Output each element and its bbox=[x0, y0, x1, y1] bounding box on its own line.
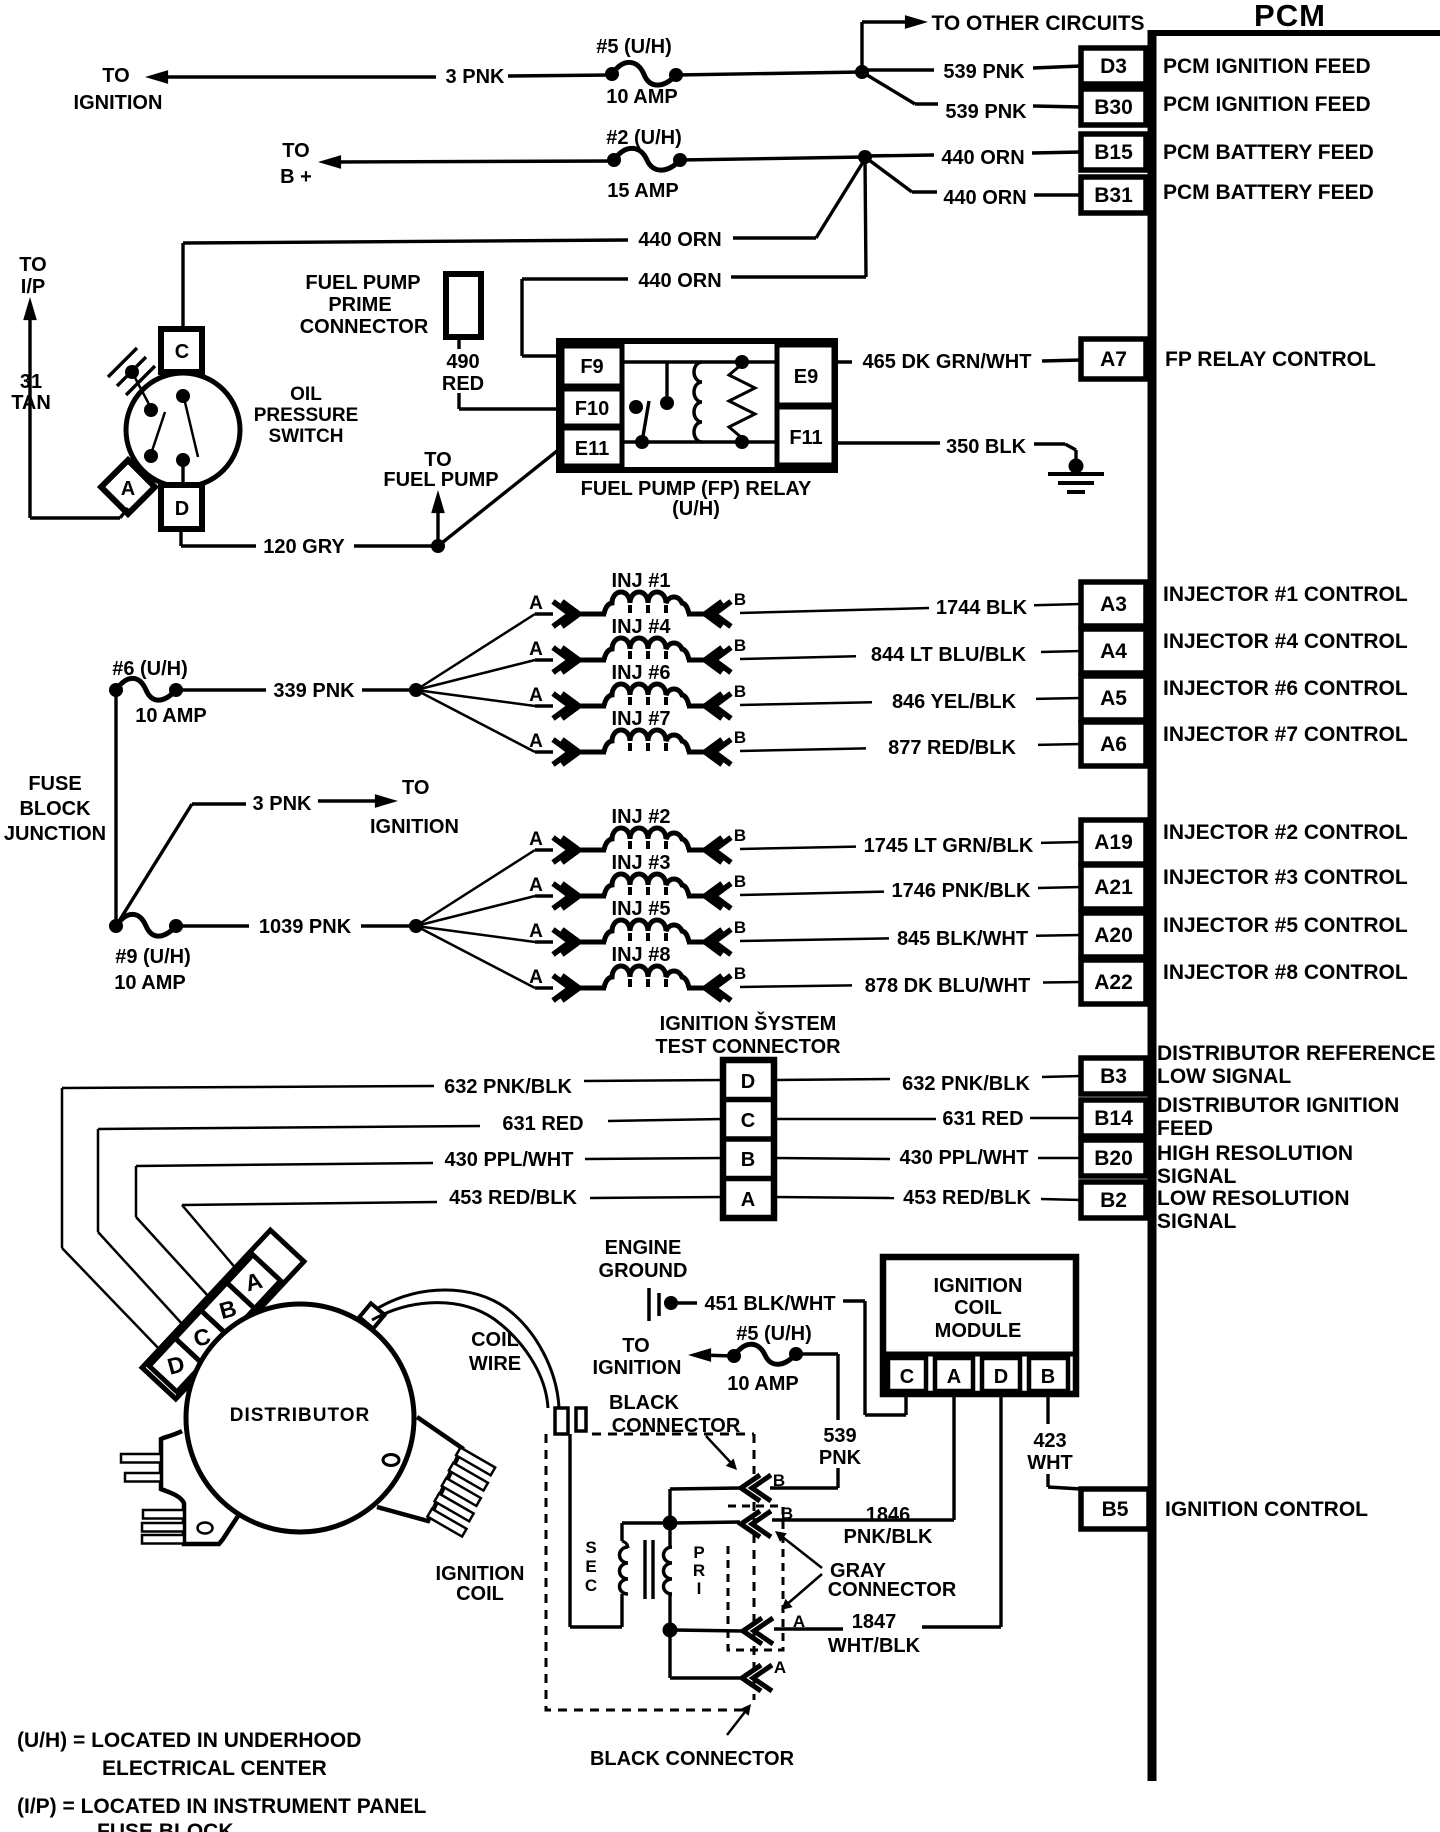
svg-text:B: B bbox=[1041, 1366, 1055, 1388]
svg-text:PRIME: PRIME bbox=[328, 294, 391, 316]
svg-text:#9 (U/H): #9 (U/H) bbox=[115, 946, 191, 968]
relay terminal F10 bbox=[562, 389, 622, 426]
wire feed to INJ #4 bbox=[416, 660, 535, 690]
svg-text:MODULE: MODULE bbox=[935, 1320, 1022, 1342]
svg-text:F9: F9 bbox=[580, 356, 603, 378]
svg-text:878 DK BLU/WHT: 878 DK BLU/WHT bbox=[865, 975, 1031, 997]
svg-text:A19: A19 bbox=[1094, 831, 1133, 854]
svg-text:423: 423 bbox=[1033, 1430, 1066, 1452]
fuse #6 (U/H) 10 AMP bbox=[116, 678, 176, 700]
coil terminal A gray connector bbox=[754, 1618, 773, 1644]
svg-text:B +: B + bbox=[280, 166, 312, 188]
svg-text:INJ #7: INJ #7 bbox=[612, 708, 671, 730]
node 120 GRY junction bbox=[431, 539, 445, 553]
svg-text:465 DK GRN/WHT: 465 DK GRN/WHT bbox=[863, 351, 1032, 373]
svg-text:B: B bbox=[734, 728, 746, 747]
wire 1039 PNK bbox=[176, 924, 249, 927]
svg-text:R: R bbox=[693, 1561, 705, 1580]
svg-text:A20: A20 bbox=[1094, 924, 1133, 947]
wire fuse2 to junction bbox=[680, 157, 865, 160]
svg-text:A: A bbox=[947, 1366, 961, 1388]
svg-text:430 PPL/WHT: 430 PPL/WHT bbox=[445, 1149, 574, 1171]
svg-text:A5: A5 bbox=[1100, 687, 1127, 710]
svg-text:A: A bbox=[529, 829, 543, 850]
wire 120 GRY to relay E11 bbox=[438, 447, 562, 546]
svg-text:GROUND: GROUND bbox=[599, 1260, 688, 1282]
module terminal A bbox=[935, 1358, 973, 1391]
svg-text:1039 PNK: 1039 PNK bbox=[259, 916, 352, 938]
svg-text:INJECTOR #4 CONTROL: INJECTOR #4 CONTROL bbox=[1163, 630, 1408, 653]
svg-text:A: A bbox=[529, 921, 543, 942]
PCM connector A5 bbox=[1081, 676, 1146, 720]
svg-text:B2: B2 bbox=[1100, 1189, 1127, 1212]
svg-text:D: D bbox=[994, 1366, 1008, 1388]
svg-text:B5: B5 bbox=[1102, 1498, 1129, 1521]
module terminal B bbox=[1029, 1358, 1068, 1391]
svg-text:A: A bbox=[741, 1189, 755, 1211]
svg-text:B: B bbox=[734, 964, 746, 983]
fuse #5 (U/H) 10 AMP bbox=[612, 62, 676, 85]
wire 539 PNK to B30 bbox=[862, 72, 915, 104]
svg-text:846 YEL/BLK: 846 YEL/BLK bbox=[892, 691, 1017, 713]
svg-text:A: A bbox=[529, 639, 543, 660]
svg-text:PNK/BLK: PNK/BLK bbox=[844, 1526, 933, 1548]
svg-text:DISTRIBUTOR: DISTRIBUTOR bbox=[230, 1405, 370, 1426]
svg-text:3 PNK: 3 PNK bbox=[253, 793, 312, 815]
wire 453 RED/BLK left bbox=[590, 1197, 723, 1198]
svg-text:A: A bbox=[793, 1612, 805, 1631]
PCM connector B5 bbox=[1081, 1489, 1149, 1529]
relay terminal E11 bbox=[562, 428, 622, 466]
svg-text:E9: E9 bbox=[794, 366, 818, 388]
svg-text:PCM IGNITION FEED: PCM IGNITION FEED bbox=[1163, 55, 1371, 78]
svg-text:CONNECTOR: CONNECTOR bbox=[612, 1415, 741, 1437]
svg-text:B: B bbox=[734, 826, 746, 845]
svg-text:539: 539 bbox=[823, 1425, 856, 1447]
wire feed to INJ #7 bbox=[416, 690, 535, 752]
svg-text:B: B bbox=[734, 590, 746, 609]
svg-text:10 AMP: 10 AMP bbox=[727, 1373, 799, 1395]
svg-text:B31: B31 bbox=[1094, 184, 1133, 207]
svg-text:A: A bbox=[529, 731, 543, 752]
svg-text:A4: A4 bbox=[1100, 640, 1127, 663]
svg-text:RED: RED bbox=[442, 373, 484, 395]
fuse #9 (U/H) 10 AMP bbox=[116, 914, 176, 936]
svg-text:ELECTRICAL CENTER: ELECTRICAL CENTER bbox=[102, 1757, 327, 1780]
wire 1846 PNK/BLK bbox=[952, 1394, 955, 1520]
wire 339 PNK bbox=[176, 688, 266, 691]
svg-text:C: C bbox=[585, 1576, 597, 1595]
svg-text:453 RED/BLK: 453 RED/BLK bbox=[449, 1187, 577, 1209]
svg-text:B30: B30 bbox=[1094, 96, 1133, 119]
wire 423 WHT bbox=[1046, 1394, 1049, 1424]
svg-text:FUEL PUMP: FUEL PUMP bbox=[383, 469, 498, 491]
wire 430 PPL/WHT right bbox=[774, 1158, 890, 1159]
svg-text:A7: A7 bbox=[1100, 348, 1127, 371]
ignition coil secondary winding bbox=[620, 1547, 629, 1594]
svg-text:TO: TO bbox=[19, 254, 46, 276]
relay terminal E9 bbox=[777, 345, 834, 405]
fuel pump relay outline bbox=[559, 341, 835, 470]
svg-text:S: S bbox=[585, 1538, 596, 1557]
PCM connector B30 bbox=[1081, 89, 1146, 125]
svg-text:TO: TO bbox=[424, 449, 451, 471]
fuse block junction bus bbox=[114, 691, 117, 926]
svg-text:631 RED: 631 RED bbox=[942, 1108, 1023, 1130]
coil terminal B black connector bbox=[752, 1475, 771, 1501]
svg-text:PCM: PCM bbox=[1254, 0, 1326, 33]
wire 430 to distributor B bbox=[136, 1217, 209, 1297]
ignition coil core bbox=[643, 1540, 646, 1599]
wire 453 RED/BLK right bbox=[774, 1197, 894, 1198]
wire 3 PNK to ignition branch bbox=[116, 804, 192, 926]
svg-text:OIL: OIL bbox=[290, 384, 322, 405]
wire coil A black bbox=[668, 1636, 671, 1678]
PCM connector A22 bbox=[1081, 960, 1146, 1004]
oil pressure switch terminal D bbox=[161, 485, 202, 529]
PCM module boundary bbox=[1148, 30, 1157, 1781]
wire 440 ORN to B15 bbox=[865, 155, 934, 156]
svg-text:INJECTOR #8 CONTROL: INJECTOR #8 CONTROL bbox=[1163, 961, 1408, 984]
svg-text:PCM BATTERY FEED: PCM BATTERY FEED bbox=[1163, 141, 1374, 164]
svg-text:BLOCK: BLOCK bbox=[19, 798, 91, 820]
ignition coil module bbox=[883, 1257, 1076, 1394]
node 1039 PNK junction bbox=[409, 919, 423, 933]
svg-text:F10: F10 bbox=[575, 398, 609, 420]
wire 430 PPL/WHT left bbox=[585, 1158, 723, 1159]
svg-text:P: P bbox=[693, 1543, 704, 1562]
svg-text:INJ #1: INJ #1 bbox=[612, 570, 671, 592]
svg-text:INJECTOR #1 CONTROL: INJECTOR #1 CONTROL bbox=[1163, 583, 1408, 606]
svg-text:31: 31 bbox=[20, 371, 42, 393]
svg-text:B: B bbox=[773, 1471, 785, 1490]
fuel pump prime connector bbox=[446, 274, 481, 337]
relay coil winding bbox=[694, 362, 702, 442]
oil pressure switch terminal A bbox=[101, 460, 155, 514]
svg-text:10 AMP: 10 AMP bbox=[606, 86, 678, 108]
PCM connector A6 bbox=[1081, 722, 1146, 766]
svg-text:440 ORN: 440 ORN bbox=[638, 270, 721, 292]
svg-text:A: A bbox=[529, 593, 543, 614]
svg-text:LOW RESOLUTION: LOW RESOLUTION bbox=[1157, 1187, 1350, 1210]
svg-text:D: D bbox=[175, 498, 189, 520]
wire coil B black bbox=[668, 1489, 671, 1523]
svg-text:120 GRY: 120 GRY bbox=[263, 536, 345, 558]
wire 878 DK BLU/WHT bbox=[740, 985, 852, 987]
svg-text:B: B bbox=[781, 1504, 793, 1523]
coil tower bbox=[555, 1408, 568, 1434]
svg-text:A6: A6 bbox=[1100, 733, 1127, 756]
node coil primary top bbox=[663, 1516, 678, 1531]
svg-text:#6 (U/H): #6 (U/H) bbox=[112, 658, 188, 680]
svg-text:TAN: TAN bbox=[11, 392, 51, 414]
wire 631 RED right bbox=[774, 1118, 936, 1121]
svg-text:539 PNK: 539 PNK bbox=[943, 61, 1025, 83]
coil wire bbox=[378, 1290, 559, 1408]
svg-text:IGNITION: IGNITION bbox=[934, 1275, 1023, 1297]
svg-text:FEED: FEED bbox=[1157, 1117, 1213, 1140]
svg-text:1744 BLK: 1744 BLK bbox=[936, 597, 1028, 619]
svg-text:10 AMP: 10 AMP bbox=[135, 705, 207, 727]
svg-text:INJECTOR #3 CONTROL: INJECTOR #3 CONTROL bbox=[1163, 866, 1408, 889]
fuse #5 (U/H) 10 AMP lower bbox=[734, 1344, 796, 1364]
distributor connector strip bbox=[142, 1230, 304, 1399]
svg-text:845 BLK/WHT: 845 BLK/WHT bbox=[897, 928, 1028, 950]
wire 845 BLK/WHT bbox=[740, 938, 889, 941]
wire 120 GRY bbox=[179, 529, 182, 546]
svg-text:CONNECTOR: CONNECTOR bbox=[300, 316, 429, 338]
svg-text:INJECTOR #7 CONTROL: INJECTOR #7 CONTROL bbox=[1163, 723, 1408, 746]
PCM connector A20 bbox=[1081, 913, 1146, 957]
svg-text:INJ #2: INJ #2 bbox=[612, 806, 671, 828]
wire TO OTHER CIRCUITS bbox=[860, 22, 863, 72]
svg-text:440 ORN: 440 ORN bbox=[638, 229, 721, 251]
svg-text:877 RED/BLK: 877 RED/BLK bbox=[888, 737, 1016, 759]
svg-text:B20: B20 bbox=[1094, 1147, 1133, 1170]
svg-text:TO: TO bbox=[102, 65, 129, 87]
svg-text:1746 PNK/BLK: 1746 PNK/BLK bbox=[892, 880, 1031, 902]
svg-text:DISTRIBUTOR REFERENCE: DISTRIBUTOR REFERENCE bbox=[1157, 1042, 1435, 1065]
oil pressure switch body bbox=[126, 373, 240, 487]
svg-text:SIGNAL: SIGNAL bbox=[1157, 1165, 1237, 1188]
svg-text:FUSE: FUSE bbox=[28, 773, 81, 795]
gray connector dashed outline bbox=[728, 1506, 783, 1650]
svg-text:632 PNK/BLK: 632 PNK/BLK bbox=[902, 1073, 1030, 1095]
svg-text:B15: B15 bbox=[1094, 141, 1133, 164]
node 339 PNK junction bbox=[409, 683, 423, 697]
svg-text:E11: E11 bbox=[575, 438, 609, 460]
wire feed to INJ #8 bbox=[416, 926, 535, 988]
svg-text:A21: A21 bbox=[1094, 876, 1133, 899]
svg-text:A: A bbox=[774, 1658, 786, 1677]
distributor left connector bbox=[161, 1431, 238, 1544]
svg-text:B: B bbox=[734, 872, 746, 891]
svg-text:B: B bbox=[734, 918, 746, 937]
svg-text:A: A bbox=[529, 875, 543, 896]
svg-text:CONNECTOR: CONNECTOR bbox=[828, 1579, 957, 1601]
relay terminal F9 bbox=[562, 346, 622, 386]
svg-text:A: A bbox=[529, 685, 543, 706]
svg-text:3 PNK: 3 PNK bbox=[446, 66, 505, 88]
svg-text:440 ORN: 440 ORN bbox=[941, 147, 1024, 169]
wire feed to INJ #6 bbox=[416, 690, 535, 706]
svg-text:A: A bbox=[529, 967, 543, 988]
svg-text:PNK: PNK bbox=[819, 1447, 862, 1469]
svg-text:453 RED/BLK: 453 RED/BLK bbox=[903, 1187, 1031, 1209]
svg-text:B14: B14 bbox=[1094, 1107, 1133, 1130]
svg-text:INJ #4: INJ #4 bbox=[612, 616, 672, 638]
svg-text:TO OTHER CIRCUITS: TO OTHER CIRCUITS bbox=[931, 12, 1144, 35]
module terminal C bbox=[888, 1358, 926, 1391]
wire coil A gray bbox=[674, 1630, 742, 1631]
svg-text:C: C bbox=[741, 1110, 755, 1132]
svg-text:B: B bbox=[734, 636, 746, 655]
wire to fuel pump bbox=[431, 490, 445, 513]
wire 440 ORN to oil pressure switch C bbox=[183, 240, 628, 243]
svg-text:PCM IGNITION FEED: PCM IGNITION FEED bbox=[1163, 93, 1371, 116]
svg-text:844 LT BLU/BLK: 844 LT BLU/BLK bbox=[871, 644, 1027, 666]
svg-text:LOW SIGNAL: LOW SIGNAL bbox=[1157, 1065, 1291, 1088]
svg-text:COIL: COIL bbox=[456, 1583, 504, 1605]
coil terminal B gray connector bbox=[752, 1511, 771, 1537]
svg-text:WHT: WHT bbox=[1027, 1452, 1073, 1474]
svg-text:(I/P) = LOCATED IN INSTRUMEN: (I/P) = LOCATED IN INSTRUMENT PANEL bbox=[17, 1795, 426, 1818]
svg-text:INJ #8: INJ #8 bbox=[612, 944, 671, 966]
relay resistor bbox=[729, 364, 755, 438]
PCM connector D3 bbox=[1081, 48, 1146, 84]
svg-text:WIRE: WIRE bbox=[469, 1353, 521, 1375]
wire 846 YEL/BLK bbox=[740, 702, 872, 705]
svg-text:IGNITION: IGNITION bbox=[436, 1563, 525, 1585]
svg-text:451 BLK/WHT: 451 BLK/WHT bbox=[704, 1293, 835, 1315]
PCM connector A7 bbox=[1081, 339, 1146, 379]
PCM connector B14 bbox=[1081, 1100, 1146, 1136]
svg-text:631 RED: 631 RED bbox=[502, 1113, 583, 1135]
svg-text:E: E bbox=[585, 1557, 596, 1576]
wire 1745 LT GRN/BLK bbox=[740, 847, 856, 849]
PCM connector A21 bbox=[1081, 865, 1146, 909]
svg-text:INJ #3: INJ #3 bbox=[612, 852, 671, 874]
distributor right connector bbox=[377, 1417, 462, 1521]
wire 632 PNK/BLK left bbox=[584, 1080, 723, 1081]
svg-text:COIL: COIL bbox=[954, 1297, 1002, 1319]
oil pressure switch terminal C bbox=[161, 329, 202, 372]
ignition coil primary winding bbox=[664, 1547, 673, 1594]
svg-text:I: I bbox=[697, 1579, 702, 1598]
svg-text:FUEL PUMP: FUEL PUMP bbox=[305, 272, 420, 294]
svg-text:FUEL PUMP (FP) RELAY: FUEL PUMP (FP) RELAY bbox=[581, 478, 812, 500]
svg-text:COIL: COIL bbox=[471, 1329, 519, 1351]
svg-text:D3: D3 bbox=[1100, 55, 1127, 78]
wire 490 RED to F10 bbox=[457, 337, 460, 349]
svg-text:#5 (U/H): #5 (U/H) bbox=[596, 36, 672, 58]
svg-text:B: B bbox=[741, 1149, 755, 1171]
svg-text:B3: B3 bbox=[1100, 1065, 1127, 1088]
svg-text:JUNCTION: JUNCTION bbox=[4, 823, 106, 845]
distributor body bbox=[186, 1304, 414, 1532]
wire feed to INJ #5 bbox=[416, 926, 535, 942]
wire feed to INJ #1 bbox=[416, 614, 535, 690]
svg-text:TEST CONNECTOR: TEST CONNECTOR bbox=[655, 1036, 841, 1058]
wire 440 ORN to FP relay F9 bbox=[865, 159, 866, 277]
wire 451 BLK/WHT bbox=[678, 1301, 697, 1304]
wire 631 to distributor C bbox=[98, 1232, 184, 1326]
relay terminal F11 bbox=[777, 407, 834, 465]
svg-text:(U/H): (U/H) bbox=[672, 498, 720, 520]
wire 440 ORN to B31 bbox=[865, 157, 912, 192]
distributor coil tower terminal bbox=[359, 1303, 384, 1328]
svg-text:BLACK: BLACK bbox=[609, 1392, 680, 1414]
svg-text:A3: A3 bbox=[1100, 593, 1127, 616]
svg-text:INJECTOR #2 CONTROL: INJECTOR #2 CONTROL bbox=[1163, 821, 1408, 844]
svg-text:490: 490 bbox=[446, 351, 479, 373]
svg-text:#5 (U/H): #5 (U/H) bbox=[736, 1323, 812, 1345]
svg-text:IGNITION CONTROL: IGNITION CONTROL bbox=[1165, 1498, 1368, 1521]
module terminal D bbox=[982, 1358, 1020, 1391]
PCM connector B2 bbox=[1081, 1182, 1146, 1218]
svg-text:350 BLK: 350 BLK bbox=[946, 436, 1027, 458]
wire 539 PNK to D3 bbox=[862, 68, 934, 71]
wire fuse5 to junction bbox=[676, 72, 862, 75]
svg-text:A: A bbox=[121, 478, 135, 500]
wire 877 RED/BLK bbox=[740, 748, 866, 751]
wire 453 to distributor A bbox=[182, 1205, 238, 1271]
wire feed to INJ #3 bbox=[416, 896, 535, 926]
wire 31 TAN bbox=[23, 297, 37, 320]
svg-text:C: C bbox=[175, 341, 189, 363]
svg-text:D: D bbox=[741, 1071, 755, 1093]
svg-text:TO: TO bbox=[282, 140, 309, 162]
svg-text:B: B bbox=[734, 682, 746, 701]
ground symbol bbox=[1069, 459, 1084, 474]
svg-text:INJ #6: INJ #6 bbox=[612, 662, 671, 684]
svg-text:PCM BATTERY FEED: PCM BATTERY FEED bbox=[1163, 181, 1374, 204]
relay switch contacts bbox=[622, 360, 777, 363]
svg-text:15 AMP: 15 AMP bbox=[607, 180, 679, 202]
svg-text:ENGINE: ENGINE bbox=[605, 1237, 682, 1259]
svg-text:WHT/BLK: WHT/BLK bbox=[828, 1635, 921, 1657]
coil terminal A black connector bbox=[753, 1665, 772, 1691]
wire coil tower to secondary bbox=[568, 1434, 571, 1627]
svg-text:IGNITION: IGNITION bbox=[593, 1357, 682, 1379]
svg-text:339 PNK: 339 PNK bbox=[273, 680, 355, 702]
svg-text:IGNITION ŠYSTEM: IGNITION ŠYSTEM bbox=[660, 1011, 837, 1035]
svg-text:TO: TO bbox=[402, 777, 429, 799]
wire to ignition 2 bbox=[688, 1348, 711, 1362]
svg-text:FUSE BLOCK: FUSE BLOCK bbox=[97, 1820, 234, 1832]
svg-text:539 PNK: 539 PNK bbox=[945, 101, 1027, 123]
svg-text:SWITCH: SWITCH bbox=[269, 426, 344, 447]
svg-text:INJECTOR #5 CONTROL: INJECTOR #5 CONTROL bbox=[1163, 914, 1408, 937]
svg-text:1847: 1847 bbox=[852, 1611, 897, 1633]
wire 631 RED left bbox=[608, 1119, 723, 1121]
svg-text:IGNITION: IGNITION bbox=[370, 816, 459, 838]
wire 465 DK GRN/WHT to A7 bbox=[834, 360, 852, 363]
svg-text:C: C bbox=[900, 1366, 914, 1388]
svg-text:SIGNAL: SIGNAL bbox=[1157, 1210, 1237, 1233]
oil pressure switch internals bbox=[108, 348, 137, 377]
svg-text:DISTRIBUTOR IGNITION: DISTRIBUTOR IGNITION bbox=[1157, 1094, 1399, 1117]
PCM connector A3 bbox=[1081, 582, 1146, 626]
wire feed to INJ #2 bbox=[416, 850, 535, 926]
svg-text:A22: A22 bbox=[1094, 971, 1133, 994]
svg-text:HIGH RESOLUTION: HIGH RESOLUTION bbox=[1157, 1142, 1353, 1165]
fuse #2 (U/H) 15 AMP bbox=[614, 148, 680, 170]
svg-text:PRESSURE: PRESSURE bbox=[254, 405, 359, 426]
svg-text:TO: TO bbox=[622, 1335, 649, 1357]
svg-text:#2 (U/H): #2 (U/H) bbox=[606, 127, 682, 149]
svg-text:BLACK CONNECTOR: BLACK CONNECTOR bbox=[590, 1748, 795, 1770]
PCM connector B31 bbox=[1081, 177, 1146, 213]
svg-text:INJ #5: INJ #5 bbox=[612, 898, 671, 920]
black connector dashed outline bbox=[592, 1433, 754, 1436]
wire 844 LT BLU/BLK bbox=[740, 656, 856, 659]
wire 1744 BLK bbox=[740, 608, 929, 613]
wire 3 PNK to ignition bbox=[145, 70, 168, 84]
svg-text:430 PPL/WHT: 430 PPL/WHT bbox=[900, 1147, 1029, 1169]
wire to B+ bbox=[318, 155, 341, 169]
node junction 440 bbox=[858, 150, 872, 164]
svg-text:I/P: I/P bbox=[21, 276, 45, 298]
PCM connector B20 bbox=[1081, 1140, 1146, 1176]
wire 1847 WHT/BLK bbox=[999, 1394, 1002, 1627]
PCM connector A4 bbox=[1081, 629, 1146, 673]
PCM connector B3 bbox=[1081, 1058, 1146, 1094]
wire coil B gray bbox=[674, 1522, 740, 1523]
svg-text:440 ORN: 440 ORN bbox=[943, 187, 1026, 209]
node coil primary bottom bbox=[663, 1623, 678, 1638]
wire 632 PNK/BLK right bbox=[774, 1079, 890, 1080]
